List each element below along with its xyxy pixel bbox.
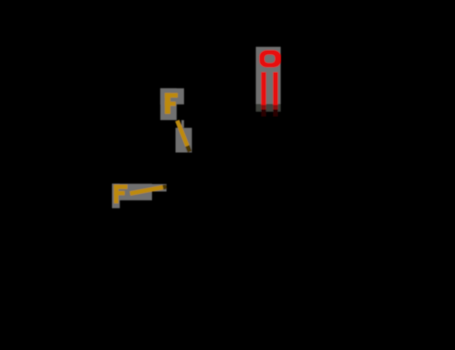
ring bond C6-C1 xyxy=(271,118,338,194)
atom F2 (lower gold glyph) xyxy=(114,185,128,204)
ring bond C1-C2 xyxy=(200,118,271,180)
bond patch F2 (gray box under C2-F2 bond) xyxy=(152,184,167,192)
label box O lower dark band xyxy=(256,104,281,112)
bond C1=O red half (upper, double bond lines) xyxy=(261,72,278,109)
label box F1 (upper, L-shaped gray erase box) xyxy=(160,88,184,127)
atom F1 (upper gold glyph) xyxy=(165,93,178,114)
ring bond C2-C3 xyxy=(200,180,227,271)
bond C2-F1 gold half xyxy=(177,121,187,146)
atom O (red glyph) xyxy=(259,50,281,67)
label box F2 (lower, L-shaped gray erase box) xyxy=(112,184,152,209)
bond patch F1 (gray box under C2-F1 bond) xyxy=(176,128,192,153)
bond C1=O black half (lower) xyxy=(261,110,278,117)
ring bond C5-C6 xyxy=(324,194,338,288)
ring bond C4-C5 xyxy=(279,287,324,305)
label box O (light gray erase box) xyxy=(256,47,281,104)
bond C2-F2 dark tip xyxy=(163,184,167,189)
bond C2-F1 dark tip xyxy=(187,146,189,152)
ring bond C3-C4 xyxy=(226,272,279,306)
bond C2-F2 gold half xyxy=(130,187,163,193)
